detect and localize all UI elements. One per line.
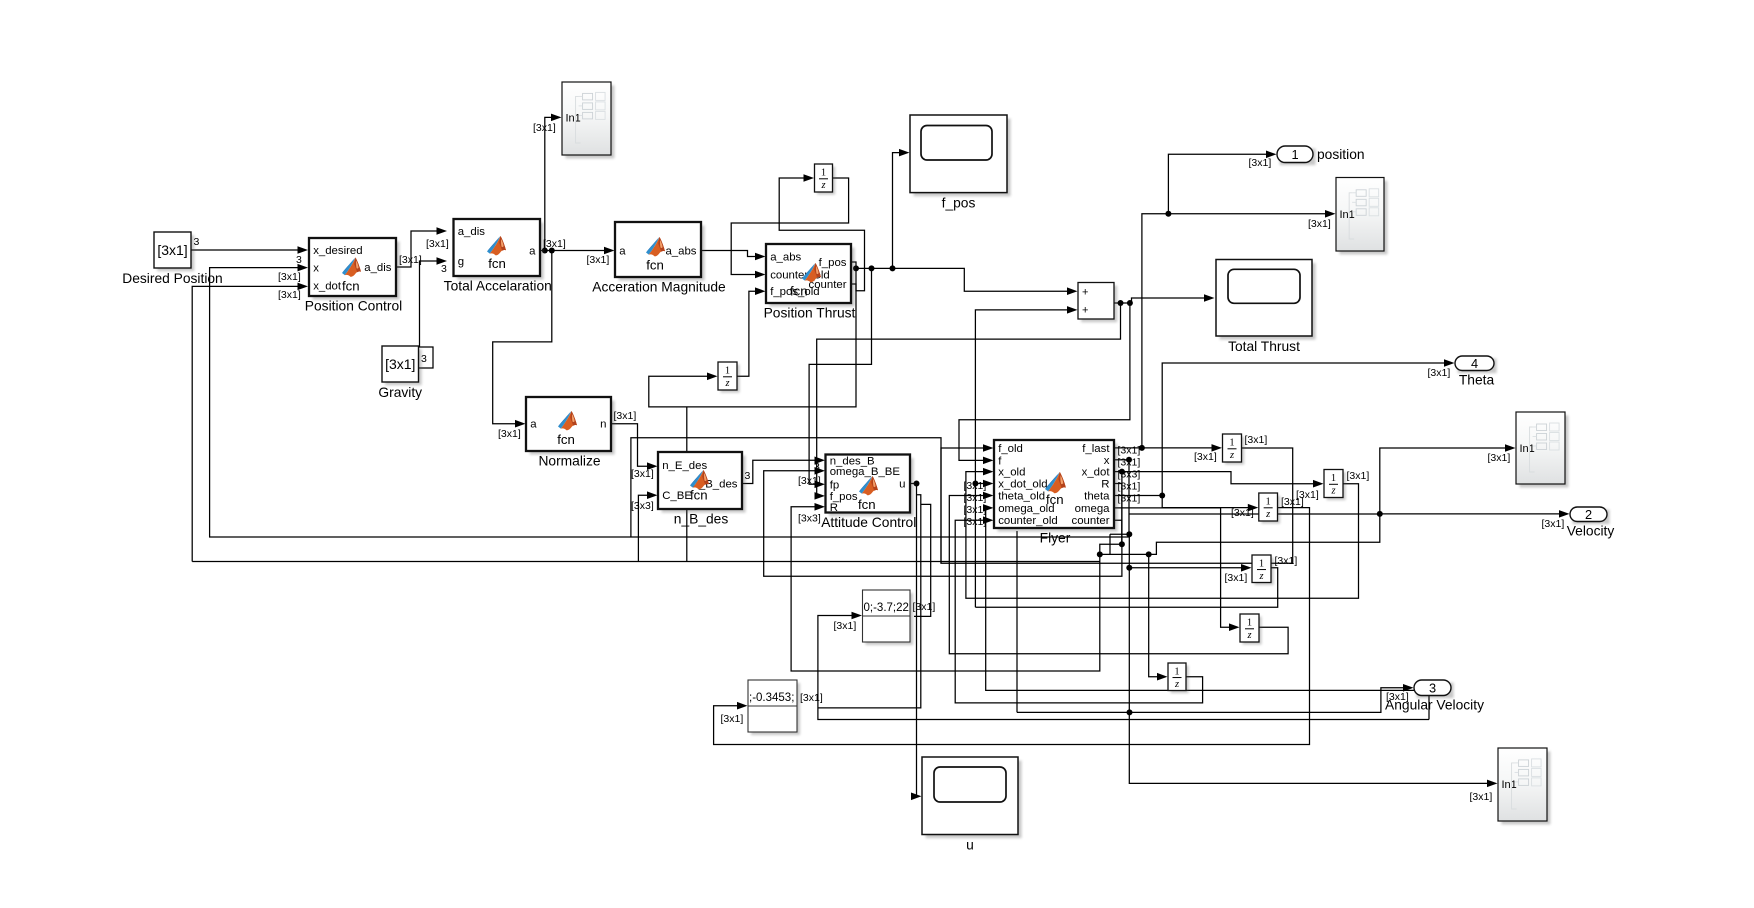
svg-text:+: + (1082, 287, 1088, 299)
wire short stair under Flyer (1110, 531, 1132, 537)
svg-text:[3x1]: [3x1] (587, 254, 610, 266)
svg-text:x: x (313, 263, 319, 275)
svg-text:1: 1 (1229, 438, 1234, 449)
svg-text:fcn: fcn (858, 497, 876, 512)
outport 2 Velocity (1567, 507, 1615, 539)
wire omega_old rail (983, 504, 1429, 719)
svg-text:fcn: fcn (557, 432, 575, 447)
wire omega_B_BE feed (764, 467, 1122, 576)
svg-text:Total Accelaration: Total Accelaration (444, 279, 552, 294)
wire unit delay4 out to rail607 (975, 568, 1277, 607)
subsystem block In1 b (In1) (1336, 178, 1387, 255)
wire branch to position outport (1168, 151, 1276, 214)
svg-text:3: 3 (441, 263, 447, 275)
svg-text:z: z (1246, 630, 1251, 641)
wire f_pos branch to Attitude Control fp (809, 268, 871, 488)
scope block f_pos (910, 115, 1011, 211)
svg-text:In1: In1 (566, 112, 581, 124)
wire unit delay3 out to display2 (714, 508, 1310, 745)
svg-text:position: position (1317, 147, 1365, 162)
unit delay block mid 1/z (1/z) (718, 362, 740, 393)
svg-text:omega_B_BE: omega_B_BE (830, 466, 901, 478)
svg-text:a: a (530, 419, 537, 431)
svg-text:fp: fp (830, 479, 840, 491)
svg-text:4: 4 (1471, 356, 1478, 371)
wire a to In1 subsystem (545, 114, 562, 251)
svg-text:In1: In1 (1502, 779, 1517, 791)
svg-text:[3x1]: [3x1] (631, 468, 654, 480)
wire x_dot drop (1121, 472, 1123, 545)
svg-text:1: 1 (1259, 558, 1264, 569)
constant block Gravity (378, 346, 422, 400)
svg-text:f_old: f_old (998, 443, 1023, 455)
svg-text:[3x1]: [3x1] (1194, 451, 1217, 463)
svg-text:[3x3]: [3x3] (631, 500, 654, 512)
svg-text:theta_old: theta_old (998, 491, 1045, 503)
wire branch to In1 subsystem c (1380, 444, 1516, 514)
unit delay block top 1/z (1/z) (815, 164, 836, 195)
wire x riser long (1128, 537, 1130, 712)
svg-text:a_dis: a_dis (458, 226, 486, 238)
svg-text:[3x1]: [3x1] (1281, 496, 1304, 508)
unit delay block 1/z theta (1/z) (1259, 493, 1280, 524)
svg-text:a: a (619, 246, 626, 258)
svg-text:fcn: fcn (790, 284, 808, 299)
svg-text:x_old: x_old (998, 467, 1025, 479)
svg-text:Position Control: Position Control (305, 299, 402, 314)
wire Total Accelaration a to Acceration Magnitude (540, 247, 615, 255)
svg-text:z: z (1330, 486, 1335, 497)
wire stair b to display1 side (914, 504, 931, 616)
svg-text:[3x1]: [3x1] (1488, 452, 1511, 464)
sum block Sum (1078, 283, 1117, 323)
svg-text:In1: In1 (1340, 209, 1355, 221)
svg-text:;-0.3453;: ;-0.3453; (749, 692, 794, 704)
svg-text:[3x1]: [3x1] (1386, 691, 1409, 703)
svg-text:a_abs: a_abs (770, 252, 801, 264)
wire angular velocity rail riser (1016, 531, 1018, 712)
wire mid unit delay to f_pos_old (737, 287, 766, 376)
svg-text:1: 1 (1266, 497, 1271, 508)
unit delay block 1/z f (1/z) (1223, 434, 1245, 465)
svg-text:[3x1]: [3x1] (913, 601, 936, 613)
svg-text:[3x1]: [3x1] (834, 620, 857, 632)
svg-text:Normalize: Normalize (538, 454, 600, 469)
svg-text:[3x1]: [3x1] (399, 254, 422, 266)
svg-text:[3x1]: [3x1] (1225, 572, 1248, 584)
svg-text:z: z (1229, 450, 1234, 461)
svg-text:[3x1]: [3x1] (1231, 507, 1254, 519)
wire Sum branch to Attitude Control f_pos (815, 303, 1121, 500)
svg-text:1: 1 (1174, 666, 1179, 677)
svg-text:u: u (899, 479, 905, 491)
svg-text:Attitude Control: Attitude Control (821, 515, 916, 530)
wire x_dot rail riser mid (686, 407, 688, 562)
svg-text:+: + (1082, 304, 1088, 316)
display block Display 1 (863, 590, 914, 645)
wire theta out (1114, 493, 1258, 512)
wire a_abs to Position Thrust (701, 251, 766, 261)
svg-text:[3x3]: [3x3] (798, 513, 821, 525)
svg-text:[3x1]: [3x1] (543, 238, 566, 250)
wire velocity rail left segment (1129, 513, 1380, 515)
svg-text:[3x1]: [3x1] (1470, 791, 1493, 803)
svg-text:Theta: Theta (1459, 373, 1495, 388)
svg-text:1: 1 (1331, 473, 1336, 484)
wire Sum to Flyer f (959, 303, 1130, 464)
svg-text:0;-3.7;22: 0;-3.7;22 (864, 602, 909, 614)
outport 4 Theta (1455, 356, 1497, 388)
svg-text:3: 3 (421, 353, 427, 365)
wire R out staircase to Attitude Control R (791, 503, 1122, 671)
wire f_pos to mid unit delay (f_pos_old loop) (649, 268, 856, 407)
svg-text:3: 3 (745, 470, 751, 482)
svg-text:Flyer: Flyer (1040, 531, 1071, 546)
MATLAB function block Attitude Control (821, 455, 916, 531)
wire In1 d feed (1129, 712, 1497, 787)
unit delay block 1/z omega (1/z) (1240, 614, 1262, 645)
MATLAB function block Position Thrust (764, 244, 856, 321)
svg-text:Gravity: Gravity (378, 385, 422, 400)
outport 3 Angular Velocity (1385, 680, 1484, 713)
svg-text:R: R (830, 502, 838, 514)
unit delay block 1/z 4 (1/z) (1252, 555, 1274, 585)
wire Gravity to Total Accelaration g (419, 257, 448, 368)
svg-text:x_desired: x_desired (313, 245, 362, 257)
svg-text:[3x1]: [3x1] (278, 271, 301, 283)
svg-text:[3x1]: [3x1] (1428, 367, 1451, 379)
svg-text:[3x1]: [3x1] (1308, 218, 1331, 230)
svg-text:x: x (1104, 455, 1110, 467)
svg-text:[3x1]: [3x1] (1245, 434, 1268, 446)
svg-text:[3x1]: [3x1] (800, 692, 823, 704)
svg-text:counter: counter (1072, 515, 1110, 527)
svg-text:z: z (724, 378, 729, 389)
subsystem block In1 d (In1) (1498, 748, 1550, 824)
wire u to u scope (910, 481, 922, 801)
svg-text:Acceration Magnitude: Acceration Magnitude (592, 280, 726, 295)
svg-text:[3x1]: [3x1] (1347, 470, 1370, 482)
svg-text:1: 1 (821, 168, 826, 179)
unit delay block 1/z counter (1/z) (1168, 663, 1189, 693)
svg-text:[3x1]: [3x1] (1118, 481, 1141, 493)
svg-text:[3x1]: [3x1] (1275, 555, 1298, 567)
svg-text:x_dot_old: x_dot_old (998, 479, 1047, 491)
wire unit delay6 out to counter_old (955, 516, 1202, 702)
svg-text:[3x1]: [3x1] (964, 504, 987, 516)
svg-text:[3x1]: [3x1] (1118, 493, 1141, 505)
svg-text:f_pos: f_pos (942, 196, 976, 211)
wire unit delay1 out to f_old (941, 444, 1293, 563)
svg-text:[3x1]: [3x1] (533, 122, 556, 134)
wire unit delay5 out to theta_old (949, 492, 1288, 654)
svg-text:n: n (600, 419, 606, 431)
wire f_last riser to In1 and position (1142, 210, 1336, 448)
svg-text:counter: counter (809, 279, 847, 291)
svg-text:a_abs: a_abs (665, 246, 696, 258)
svg-text:a: a (529, 246, 536, 258)
wire rail riser to f_old (631, 438, 941, 564)
wire branch to unit delay6 (1146, 551, 1168, 680)
wire theta riser to Theta outport (1162, 359, 1454, 495)
svg-text:fcn: fcn (488, 256, 506, 271)
wire x out to rail (1114, 459, 1129, 461)
wire short stair v (1109, 534, 1111, 554)
svg-text:1: 1 (725, 366, 730, 377)
wire display1 rail (818, 612, 1429, 720)
wire branch to Flyer x_dot_old (972, 480, 993, 488)
wire Desired Position to Position Control x_desired (191, 246, 308, 254)
MATLAB function block Acceration Magnitude (592, 222, 726, 295)
scope block u scope (922, 757, 1022, 853)
wire C_BE riser (638, 491, 657, 561)
svg-text:2: 2 (1585, 507, 1592, 522)
scope block Total Thrust (1216, 260, 1316, 355)
svg-text:[3x1]: [3x1] (1542, 518, 1565, 530)
wire Position Thrust counter to top unit delay (779, 174, 864, 291)
subsystem block In1 a (In1) (562, 82, 614, 158)
svg-text:1: 1 (1247, 618, 1252, 629)
wire f_last to unit delay1 (1114, 444, 1222, 452)
wire Sum to Total Thrust scope (1114, 294, 1215, 306)
svg-text:3: 3 (194, 236, 200, 248)
svg-text:[3x1]: [3x1] (1118, 445, 1141, 457)
MATLAB function block Flyer (994, 440, 1118, 546)
wire f_pos branch to f_pos scope (893, 149, 910, 269)
svg-text:[3x1]: [3x1] (614, 410, 637, 422)
svg-text:theta: theta (1084, 491, 1110, 503)
outport 1 position (1277, 146, 1365, 165)
svg-text:[3x1]: [3x1] (964, 516, 987, 528)
svg-text:u: u (966, 838, 974, 853)
svg-text:fcn: fcn (1046, 492, 1064, 507)
svg-text:Position Thrust: Position Thrust (764, 306, 856, 321)
wire x_dot rail lower (192, 561, 1100, 563)
svg-text:omega: omega (1075, 503, 1110, 515)
MATLAB function block Total Accelaration (444, 219, 552, 294)
wire top unit delay to counter_old (731, 178, 848, 278)
svg-text:R: R (1101, 479, 1109, 491)
subsystem block In1 c (In1) (1516, 412, 1568, 487)
svg-text:Velocity: Velocity (1567, 524, 1615, 539)
wire unit delay4 in (1126, 564, 1251, 572)
svg-text:Desired Position: Desired Position (122, 271, 222, 286)
wire x_dot out to unit delay2 (1114, 469, 1324, 488)
svg-text:z: z (820, 180, 825, 191)
wire unit delay2 out to x_old (966, 468, 1359, 598)
svg-text:3: 3 (1429, 680, 1436, 695)
svg-text:fcn: fcn (690, 488, 708, 503)
svg-text:n_B_des: n_B_des (674, 512, 729, 527)
svg-text:n_E_des: n_E_des (662, 460, 707, 472)
svg-text:[3x1]: [3x1] (798, 475, 821, 487)
svg-text:g: g (458, 256, 464, 268)
svg-text:[3x3]: [3x3] (1118, 469, 1141, 481)
svg-text:1: 1 (1291, 147, 1298, 162)
svg-text:[3x1]: [3x1] (426, 238, 449, 250)
wire omega out to unit delay5 (1114, 508, 1240, 631)
svg-text:x_dot: x_dot (1082, 467, 1111, 479)
wire x feedback rail (210, 264, 1132, 537)
svg-text:f_pos: f_pos (819, 257, 847, 269)
svg-text:z: z (1258, 571, 1263, 582)
wire Normalize n to n_B_des (611, 424, 658, 470)
wire Position Thrust f_pos to Sum (851, 262, 1078, 295)
constant block Desired Position (122, 232, 222, 286)
svg-text:[3x1]: [3x1] (964, 480, 987, 492)
wire x_dot feedback rail (192, 283, 308, 562)
svg-text:3: 3 (296, 254, 302, 266)
wire a to Normalize (493, 251, 552, 428)
svg-text:[3x1]: [3x1] (964, 492, 987, 504)
wire n_B_des to Attitude Control n_des_B (742, 457, 825, 484)
wire Position Control a_dis to Total Accelaration (396, 227, 447, 267)
svg-text:[3x1]: [3x1] (1249, 157, 1272, 169)
svg-text:x_dot: x_dot (313, 281, 342, 293)
wire x_dot_old feed and Sum plus2 (975, 306, 1077, 607)
MATLAB function block Position Control (305, 238, 402, 314)
svg-text:[3x1]: [3x1] (498, 428, 521, 440)
svg-text:[3x1]: [3x1] (157, 242, 187, 258)
svg-text:[3x1]: [3x1] (385, 356, 415, 372)
svg-text:[3x1]: [3x1] (278, 289, 301, 301)
svg-text:f_last: f_last (1082, 443, 1110, 455)
wire stair a from u line (818, 495, 920, 708)
svg-text:Total Thrust: Total Thrust (1228, 339, 1300, 354)
svg-text:fcn: fcn (646, 258, 664, 273)
svg-text:z: z (1265, 509, 1270, 520)
svg-text:3: 3 (814, 461, 820, 473)
MATLAB function block n_B_des (658, 452, 746, 527)
svg-text:[3x1]: [3x1] (1118, 457, 1141, 469)
svg-text:fcn: fcn (342, 279, 360, 294)
svg-text:counter_old: counter_old (998, 515, 1058, 527)
unit delay block 1/z x_dot (1/z) (1324, 470, 1346, 501)
svg-text:C_BE: C_BE (662, 490, 692, 502)
wire velocity tap from staircase (1097, 510, 1570, 557)
display block Display 2 (748, 680, 800, 735)
svg-text:[3x1]: [3x1] (721, 713, 744, 725)
svg-text:z: z (1174, 679, 1179, 690)
MATLAB function block Normalize (526, 397, 615, 469)
svg-text:a_dis: a_dis (364, 262, 392, 274)
svg-text:In1: In1 (1520, 443, 1535, 455)
wire Angular Velocity rail (1017, 684, 1414, 715)
